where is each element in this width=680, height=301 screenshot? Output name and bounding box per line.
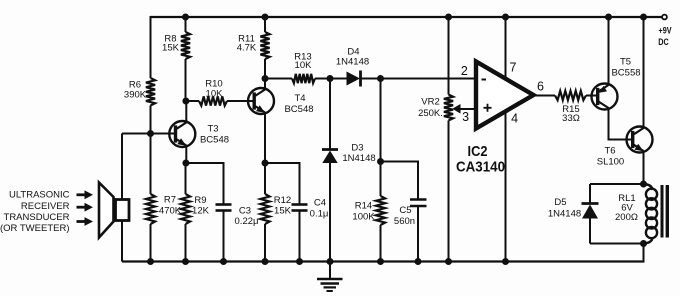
ground symbol (329, 262, 331, 280)
diode D5 1N4148 (flyback) (590, 183, 644, 185)
svg-text:C3: C3 (239, 206, 251, 217)
svg-text:RECEIVER: RECEIVER (21, 201, 70, 212)
wire: T3 collector (185, 101, 187, 123)
svg-text:6: 6 (537, 80, 544, 94)
svg-text:12K: 12K (192, 206, 210, 217)
resistor R15 (532, 95, 555, 97)
svg-text:BC548: BC548 (284, 104, 313, 115)
diode D3 1N4148 (to ground) (329, 79, 331, 151)
node: T3 emitter junction (182, 160, 189, 167)
wire: R6 to base node (150, 106, 152, 134)
transistor T4 BC548 (248, 88, 274, 114)
diode D4 1N4148 (347, 72, 361, 86)
relay core bars (661, 185, 664, 238)
svg-text:D3: D3 (351, 143, 363, 154)
svg-text:BC558: BC558 (611, 68, 640, 79)
svg-text:1N4148: 1N4148 (342, 153, 375, 164)
wire: T6 emitter to relay (643, 151, 645, 184)
svg-text:10K: 10K (295, 60, 313, 71)
node: R8/R10/T3 collector (182, 98, 189, 105)
VR2 wiper arrow to pin 3 (452, 104, 460, 114)
top +9V supply rail (150, 16, 662, 18)
svg-text:15K: 15K (274, 206, 292, 217)
svg-text:3: 3 (462, 110, 469, 124)
resistor R10 (186, 100, 199, 102)
resistor R6 (146, 78, 155, 106)
wire: pin 7 to rail (505, 17, 507, 80)
svg-text:DC: DC (658, 37, 669, 47)
node: D3 tap on detector wire (327, 75, 334, 82)
wire: D4 to op-amp pin 2 (361, 78, 477, 80)
resistor R9 (185, 163, 187, 194)
node: R14/C5 tap (377, 75, 384, 82)
wire: transducer base wire to T3 (122, 133, 176, 135)
relay RL1 coil (640, 181, 647, 188)
capacitor C4 0.1u (265, 163, 300, 204)
wire: T4 collector (264, 79, 266, 90)
resistor R12 (264, 163, 266, 194)
wire: pin 4 to ground rail (505, 110, 507, 262)
resistor R7 (150, 134, 152, 195)
svg-text:15K: 15K (162, 43, 180, 54)
svg-text:C4: C4 (314, 198, 326, 209)
svg-text:4: 4 (511, 111, 518, 125)
wire: T5 emitter to rail (608, 17, 610, 85)
transducer speaker symbol (99, 183, 114, 238)
svg-text:T6: T6 (604, 146, 615, 157)
svg-text:4.7K: 4.7K (237, 43, 257, 54)
resistor R8 (182, 14, 189, 21)
svg-text:R7: R7 (164, 195, 176, 206)
svg-text:10K: 10K (206, 89, 224, 100)
svg-text:250K.: 250K. (418, 108, 443, 119)
svg-text:T4: T4 (294, 93, 305, 104)
svg-text:2: 2 (461, 64, 468, 78)
wire: T4 emitter (264, 112, 266, 163)
svg-text:ULTRASONIC: ULTRASONIC (9, 190, 70, 201)
node: T4 emitter junction (262, 160, 269, 167)
wire: left column down from rail to R6 (150, 16, 152, 78)
svg-text:560n: 560n (394, 216, 415, 227)
svg-text:TRANSDUCER: TRANSDUCER (4, 212, 70, 223)
svg-text:T3: T3 (207, 123, 218, 134)
svg-text:C5: C5 (399, 205, 411, 216)
svg-text:CA3140: CA3140 (456, 159, 505, 176)
svg-text:200Ω: 200Ω (615, 212, 638, 223)
svg-text:SL100: SL100 (597, 157, 624, 168)
wire: transducer vertical (121, 134, 123, 262)
wire: T5 collector to T6 base (609, 108, 633, 140)
svg-text:R12: R12 (274, 195, 291, 206)
node: R11/T4-collector/R13 (262, 75, 269, 82)
svg-text:R14: R14 (355, 201, 372, 212)
wire: T6 collector to rail (643, 17, 645, 128)
wire: relay bottom to ground rail (643, 244, 645, 262)
svg-text:7: 7 (510, 61, 517, 75)
svg-text:T5: T5 (620, 57, 631, 68)
potentiometer VR2 250K (445, 14, 452, 21)
node: C5 tap (377, 158, 384, 165)
svg-text:R9: R9 (194, 195, 206, 206)
svg-text:100K: 100K (352, 212, 375, 223)
bottom ground rail (122, 260, 645, 262)
transistor T3 BC548 (169, 121, 195, 147)
wire: T3 emitter (185, 145, 187, 163)
resistor R14 (380, 79, 382, 197)
capacitor C3 0.22u (186, 163, 224, 204)
svg-text:+9V: +9V (659, 26, 672, 36)
transistor T5 BC558 (PNP) (592, 84, 618, 110)
svg-text:390K: 390K (124, 90, 147, 101)
node: R6/R7/T3-base junction (147, 130, 154, 137)
svg-text:0.1μ: 0.1μ (310, 209, 329, 220)
svg-text:VR2: VR2 (421, 97, 439, 108)
svg-text:BC548: BC548 (200, 135, 229, 146)
svg-text:1N4148: 1N4148 (548, 209, 581, 220)
svg-text:IC2: IC2 (468, 143, 488, 160)
svg-text:(OR TWEETER): (OR TWEETER) (0, 223, 70, 234)
input arrows (77, 193, 86, 196)
svg-text:470K: 470K (159, 206, 182, 217)
resistor R13 (265, 78, 292, 80)
svg-text:33Ω: 33Ω (562, 113, 580, 124)
op-amp U1 IC2 CA3140 (476, 62, 534, 129)
transistor T6 SL100 (627, 127, 653, 153)
svg-text:D5: D5 (554, 197, 566, 208)
+9V DC terminal (662, 15, 667, 20)
svg-text:1N4148: 1N4148 (336, 57, 369, 68)
resistor R11 (262, 14, 269, 21)
capacitor C5 560n (381, 162, 419, 200)
svg-text:0.22μ: 0.22μ (235, 216, 259, 227)
